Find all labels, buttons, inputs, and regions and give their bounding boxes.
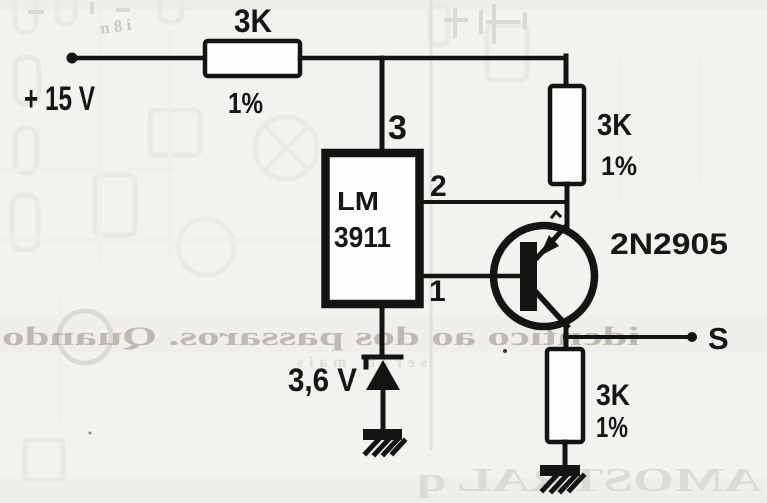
svg-text:1: 1	[429, 275, 446, 308]
svg-text:3K: 3K	[234, 3, 272, 39]
svg-text:3K: 3K	[597, 107, 633, 142]
svg-text:2N2905: 2N2905	[610, 228, 728, 261]
svg-text:AMOSTRAL q: AMOSTRAL q	[417, 462, 762, 499]
svg-text:LM: LM	[337, 186, 379, 216]
svg-text:1%: 1%	[596, 412, 628, 444]
svg-text:1%: 1%	[601, 151, 637, 181]
svg-text:S: S	[708, 321, 729, 356]
svg-text:3K: 3K	[596, 379, 630, 412]
svg-text:3911: 3911	[334, 222, 391, 254]
svg-text:3: 3	[388, 109, 407, 147]
svg-text:2: 2	[430, 170, 447, 203]
svg-text:1%: 1%	[228, 88, 263, 120]
svg-text:3,6 V: 3,6 V	[288, 362, 358, 398]
svg-text:+ 15 V: + 15 V	[24, 80, 95, 118]
